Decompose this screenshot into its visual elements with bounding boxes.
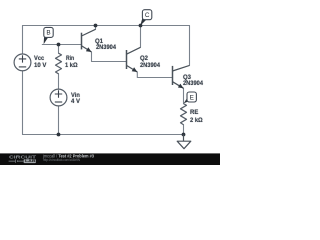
svg-text:B: B xyxy=(46,30,50,37)
svg-text:C: C xyxy=(145,12,150,19)
svg-text:E: E xyxy=(190,94,194,101)
